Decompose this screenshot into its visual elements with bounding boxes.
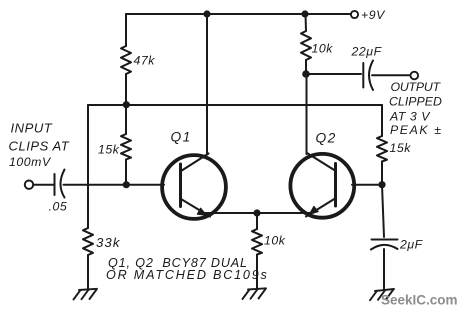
svg-text:100mV: 100mV [9, 155, 52, 169]
wire: rail corner down to 47k [125, 14, 127, 46]
wire: input terminal to C1 [34, 184, 55, 186]
wire: 10k to ground [256, 255, 258, 289]
svg-text:CLIPPED: CLIPPED [389, 95, 442, 109]
svg-text:15k: 15k [98, 143, 120, 157]
transistor Q2 [290, 153, 354, 218]
wire: 10k to output node [305, 60, 307, 74]
svg-text:OUTPUT: OUTPUT [391, 80, 442, 94]
wire: C1 to Q1 base [64, 184, 165, 186]
svg-text:CLIPS AT: CLIPS AT [9, 139, 70, 154]
svg-text:.05: .05 [49, 200, 68, 214]
terminal output [411, 72, 419, 80]
svg-text:INPUT: INPUT [11, 121, 53, 136]
capacitor C2 22uF plate [362, 63, 364, 88]
wire: C2 to output terminal [372, 74, 410, 76]
capacitor C1 .05 plate [54, 174, 56, 195]
capacitor C3 2uF curved plate [371, 245, 398, 250]
svg-text:Q2: Q2 [316, 131, 337, 146]
svg-text:AT 3 V: AT 3 V [389, 110, 431, 124]
capacitor C1 .05 curved plate [61, 170, 65, 198]
wire: 47k to node A [125, 74, 127, 105]
wire: output node to C2 [306, 73, 361, 75]
wire: node A down left branch [87, 105, 89, 228]
junction output node [302, 70, 310, 78]
ground (left) [74, 289, 98, 300]
wire: node A corner down to 15k right [381, 105, 383, 136]
svg-text:10k: 10k [312, 42, 334, 56]
wire: rail to 10k top [305, 14, 308, 31]
transistor Q1 [162, 154, 226, 219]
svg-text:15k: 15k [390, 141, 412, 155]
capacitor C3 2uF plate [372, 239, 398, 241]
resistor R1 47k [121, 46, 131, 74]
svg-text:Q1: Q1 [171, 130, 192, 145]
ground (center) [243, 288, 267, 299]
junction node A [123, 101, 130, 108]
svg-text:SeekIC.com: SeekIC.com [381, 293, 458, 308]
wire: common emitter line [204, 212, 311, 214]
junction emitter node [253, 209, 260, 216]
wire: C3 to ground [383, 249, 385, 289]
capacitor C2 22uF curved plate [369, 61, 373, 91]
resistor R4 10k top [301, 31, 311, 60]
wire: 15k to Q2 base node [381, 162, 383, 185]
svg-text:47k: 47k [134, 54, 156, 68]
wire: Q2 base node to Q2 [352, 184, 382, 186]
wire: Q2 collector to output node [306, 74, 308, 154]
svg-text:OR MATCHED BC109s: OR MATCHED BC109s [106, 268, 269, 282]
resistor R3 15k left [121, 134, 131, 160]
terminal input [25, 181, 33, 189]
wire: node A to 15k left [125, 105, 127, 135]
resistor R2 33k [83, 228, 93, 255]
junction rail-10k [301, 10, 308, 17]
terminal +9V [351, 11, 358, 18]
svg-text:+9V: +9V [361, 8, 386, 22]
wire: node A horizontal bias line [88, 104, 382, 106]
resistor R5 15k right [377, 136, 387, 162]
wire: Q1 collector to rail [206, 14, 208, 155]
wire: emitter node to 10k bottom [256, 213, 258, 229]
svg-text:22μF: 22μF [351, 45, 383, 59]
wire: Q2 base node down to C3 [382, 185, 384, 237]
resistor R6 10k bottom [252, 229, 262, 255]
junction Q2 base node [378, 181, 385, 188]
svg-text:33k: 33k [96, 235, 121, 250]
ground (right) [370, 289, 394, 300]
svg-text:2μF: 2μF [399, 238, 424, 252]
junction Q1 base node [123, 181, 130, 188]
wire: top supply rail [126, 13, 351, 15]
wire: 15k to Q1 base node [125, 160, 127, 185]
junction rail-Q1 collector [203, 10, 210, 17]
wire: 33k to ground [87, 255, 89, 289]
svg-text:PEAK ±: PEAK ± [390, 123, 443, 137]
svg-text:10k: 10k [264, 234, 286, 248]
